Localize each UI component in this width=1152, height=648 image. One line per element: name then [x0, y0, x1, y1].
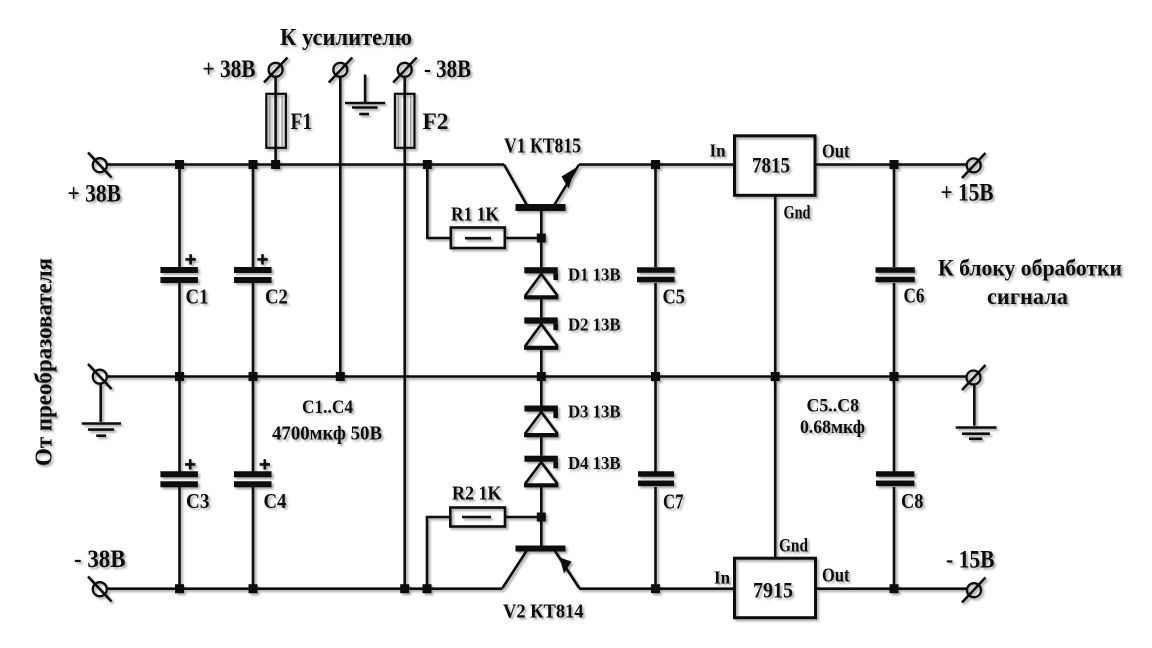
svg-text:C2: C2: [265, 285, 288, 309]
label -15V right: [946, 547, 995, 574]
junction mid rail C1C3: [175, 372, 184, 381]
label to signal processing block line2: [987, 284, 1068, 309]
terminal +15V output right: [962, 153, 986, 178]
junction bottom rail C7: [651, 584, 660, 593]
svg-text:C1: C1: [186, 285, 209, 309]
regulator U1 pin labels: [710, 141, 850, 224]
junction bottom rail C8: [890, 584, 899, 593]
junction bottom rail F2: [400, 584, 409, 593]
junction top rail F1: [271, 160, 280, 169]
resistor R2 label: [452, 483, 502, 505]
svg-text:C3: C3: [186, 489, 210, 513]
wire C6 C8 branch vertical: [893, 165, 896, 589]
zener diode D1: [524, 267, 558, 297]
zener diode D2: [524, 317, 558, 347]
transistor V1 KT815: [504, 165, 579, 212]
regulator U2 7915: [735, 558, 816, 618]
transistor V2 KT814: [503, 546, 580, 589]
zener diode D3 label: [568, 402, 621, 422]
label -38V left: [74, 546, 126, 573]
resistor R1: [451, 228, 505, 249]
svg-text:7915: 7915: [753, 578, 793, 603]
capacitor C8: [876, 474, 923, 513]
svg-text:К усилителю: К усилителю: [280, 25, 412, 51]
svg-text:D3 13В: D3 13В: [568, 402, 621, 422]
svg-text:R2 1K: R2 1K: [452, 483, 502, 505]
junction mid rail Gnd: [771, 372, 780, 381]
svg-text:C1..C4: C1..C4: [302, 398, 353, 418]
zener diode D4: [524, 456, 558, 486]
transistor V2 label: [503, 602, 584, 623]
capacitor C7: [638, 474, 684, 514]
label C1..C4: [302, 398, 353, 418]
label -38V top: [424, 56, 471, 83]
svg-text:C5..C8: C5..C8: [807, 397, 860, 417]
svg-text:V2 КТ814: V2 КТ814: [503, 602, 584, 623]
junction bottom rail C3: [175, 584, 184, 593]
label C5..C8: [807, 397, 860, 417]
wire 7815 Gnd to mid rail: [774, 196, 777, 377]
ground symbol right: [956, 385, 997, 439]
capacitor C2: [234, 254, 288, 308]
junction node base V1: [537, 234, 546, 243]
wire R1 to base node: [505, 237, 541, 240]
svg-text:V1 КТ815: V1 КТ815: [504, 134, 581, 158]
svg-text:In: In: [714, 568, 730, 588]
regulator U2 pin labels: [714, 536, 850, 588]
wire bottom rail -15V right segment (7915 Out to terminal): [816, 587, 967, 590]
wire mid rail 0V: [107, 375, 967, 378]
wire middle terminal to mid rail: [339, 77, 342, 377]
junction mid rail C5C7: [651, 372, 660, 381]
label 0.68uF: [800, 418, 865, 438]
svg-text:Out: Out: [822, 142, 850, 163]
label to amplifier: [280, 25, 412, 51]
svg-text:D2 13В: D2 13В: [568, 315, 621, 335]
svg-text:C6: C6: [904, 284, 925, 308]
svg-text:Gnd: Gnd: [779, 536, 808, 557]
capacitor C1: [160, 254, 208, 308]
terminal -38V to amplifier top: [393, 58, 417, 83]
terminal +38V input left: [88, 153, 112, 178]
capacitor C5: [637, 270, 685, 309]
svg-text:7815: 7815: [752, 153, 790, 178]
ground symbol top middle: [345, 75, 385, 115]
label +38V top: [203, 56, 256, 83]
fuse F2: [395, 94, 415, 148]
ground symbol left: [82, 384, 121, 436]
terminal 0V output right: [962, 365, 986, 390]
terminal 0V input left: [88, 364, 112, 389]
terminal +38V to amplifier top: [264, 58, 288, 83]
junction bottom rail C4: [249, 584, 258, 593]
label +15V right: [941, 180, 994, 207]
svg-text:F2: F2: [423, 109, 449, 135]
svg-text:C4: C4: [264, 489, 287, 513]
wire C5 C7 branch vertical: [654, 165, 657, 589]
wire top rail +38V left segment: [107, 163, 504, 166]
terminal 0V to amplifier top: [329, 58, 353, 83]
svg-text:+ 38В: + 38В: [68, 181, 122, 208]
svg-text:D4 13В: D4 13В: [568, 453, 621, 473]
label +38V left: [68, 181, 122, 208]
wire C1 C3 branch vertical: [178, 165, 181, 589]
junction top rail C5: [651, 160, 660, 169]
terminal -38V input left: [88, 577, 112, 602]
svg-text:+ 38В: + 38В: [203, 56, 256, 83]
svg-text:C8: C8: [901, 489, 923, 513]
svg-text:C5: C5: [663, 285, 685, 309]
fuse F2 label: [423, 109, 449, 135]
wire R2 branch from bottom rail: [426, 517, 451, 589]
fuse F1: [266, 94, 286, 148]
junction mid rail C6C8: [890, 372, 899, 381]
resistor R1 label: [451, 204, 499, 226]
svg-text:К блоку обработки: К блоку обработки: [938, 256, 1122, 282]
wire 7915 Gnd to mid rail: [774, 377, 777, 558]
junction top rail C6: [890, 160, 899, 169]
svg-text:R1 1K: R1 1K: [451, 204, 499, 226]
svg-text:- 38В: - 38В: [424, 56, 471, 83]
label from converter (rotated): [32, 258, 58, 466]
svg-text:Gnd: Gnd: [784, 203, 811, 224]
svg-text:Out: Out: [822, 566, 850, 587]
junction node base V2: [537, 513, 546, 522]
capacitor C6: [876, 270, 925, 308]
junction top rail C1: [175, 160, 184, 169]
label to signal processing block line1: [938, 256, 1122, 282]
svg-text:F1: F1: [291, 109, 313, 135]
svg-text:- 15В: - 15В: [946, 547, 995, 574]
zener diode D1 label: [568, 265, 621, 285]
svg-text:4700мкф 50В: 4700мкф 50В: [272, 423, 382, 445]
zener diode D3: [524, 406, 558, 436]
wire top rail +15V right segment (7815 Out to terminal): [815, 163, 967, 166]
junction mid rail zener chain: [537, 372, 546, 381]
terminal -15V output right: [962, 578, 986, 603]
capacitor C3: [160, 459, 209, 513]
capacitor C4: [234, 459, 287, 513]
wire zener chain vertical: [540, 211, 543, 546]
svg-text:+ 15В: + 15В: [941, 180, 994, 207]
label 4700uF 50V: [272, 423, 382, 445]
svg-text:C7: C7: [663, 490, 684, 514]
wire R1 branch from top rail: [426, 165, 451, 239]
svg-text:От преобразователя: От преобразователя: [32, 258, 58, 466]
wire bottom rail -38V left segment: [107, 587, 503, 590]
wire F2 to bottom rail: [403, 77, 406, 589]
wire top rail +15V middle segment (emitter to 7815 In): [579, 163, 734, 166]
svg-text:- 38В: - 38В: [74, 546, 126, 573]
svg-text:0.68мкф: 0.68мкф: [800, 418, 865, 438]
junction top rail R1: [423, 160, 432, 169]
svg-text:In: In: [710, 141, 726, 161]
junction mid rail center tap: [336, 372, 345, 381]
regulator U1 7815: [735, 136, 816, 196]
wire R2 to base node: [505, 516, 541, 519]
wire F1 to rail: [274, 77, 277, 165]
junction top rail C2: [249, 160, 258, 169]
fuse F1 label: [291, 109, 313, 135]
zener diode D4 label: [568, 453, 621, 473]
resistor R2: [450, 508, 505, 527]
transistor V1 label: [504, 134, 581, 158]
wire bottom rail -15V middle segment (V2 emitter to 7915 In): [579, 587, 734, 590]
wire C2 C4 branch vertical: [252, 165, 255, 589]
junction bottom rail R2: [423, 584, 432, 593]
junction mid rail C2C4: [249, 372, 258, 381]
svg-text:сигнала: сигнала: [987, 284, 1068, 309]
zener diode D2 label: [568, 315, 621, 335]
svg-text:D1 13В: D1 13В: [568, 265, 621, 285]
